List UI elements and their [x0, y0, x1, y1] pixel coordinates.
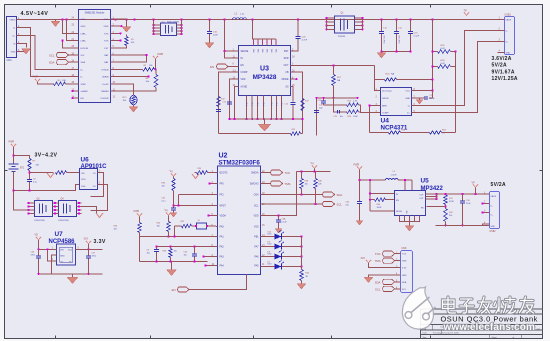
svg-text:NRST: NRST [220, 206, 227, 208]
port TMS top [261, 183, 271, 185]
svg-text:VM: VM [81, 173, 84, 175]
capacitor C11 [227, 101, 232, 103]
svg-text:0.1u: 0.1u [162, 201, 166, 203]
wire network to U4 COMP [359, 105, 381, 113]
svg-text:PG: PG [258, 102, 260, 105]
svg-text:D-: D- [81, 77, 84, 79]
wire comp lower R19 [219, 133, 291, 135]
svg-text:OSA: OSA [254, 194, 259, 197]
svg-text:EVSON: EVSON [81, 48, 89, 50]
svg-text:CO: CO [93, 173, 97, 175]
svg-text:U7: U7 [55, 231, 64, 238]
svg-text:SDR: SDR [284, 58, 289, 60]
wire USB2 D+ stub [483, 212, 490, 214]
power flag PWR near STAT [35, 79, 40, 82]
svg-text:VBUS: VBUS [10, 20, 16, 22]
wire cap ground bus [382, 51, 411, 53]
wire Q4 out [82, 207, 97, 214]
ground U7 [72, 274, 74, 277]
svg-text:10K: 10K [62, 80, 66, 82]
svg-text:22uF: 22uF [213, 35, 219, 37]
svg-text:BT1: BT1 [20, 168, 25, 170]
ground RT1 [129, 107, 138, 113]
wire battery minus bus [14, 185, 80, 191]
wire OUT feedback node [317, 97, 358, 99]
wire parts ground bus [140, 261, 208, 263]
resistor R30 10k [173, 176, 175, 178]
svg-text:PG: PG [247, 102, 249, 105]
wire U6 DO to gate [91, 185, 108, 211]
svg-text:GND: GND [81, 26, 86, 28]
wire CN1 GND [17, 49, 26, 52]
svg-text:U2: U2 [219, 153, 228, 160]
svg-text:PA3: PA3 [220, 256, 225, 259]
resistor R23 1K feedback [370, 132, 389, 134]
wire PA0 row R31 X1 [175, 225, 182, 227]
svg-text:470n: 470n [92, 256, 96, 258]
svg-text:SW: SW [263, 49, 265, 52]
svg-text:3V~4.2V: 3V~4.2V [35, 153, 58, 159]
svg-text:3.3V: 3.3V [402, 268, 407, 270]
resistor R32 10k [168, 215, 170, 221]
power flag PWR battery [11, 144, 16, 147]
svg-text:DO: DO [93, 186, 97, 188]
wire pullup rail [297, 171, 331, 173]
wire PA2 row [157, 246, 218, 248]
capacitor C30 22u [359, 180, 361, 201]
power flag PWR R36 [137, 214, 142, 217]
svg-text:SDA: SDA [49, 61, 55, 65]
svg-text:uSMBC: uSMBC [81, 91, 89, 93]
svg-text:10k: 10k [157, 226, 160, 228]
test point TP1 [464, 13, 469, 16]
svg-text:0.1uF: 0.1uF [414, 36, 420, 38]
svg-text:OTSUB: OTSUB [101, 69, 109, 71]
svg-text:TCK: TCK [375, 252, 381, 256]
wire VDDA stub [209, 215, 218, 217]
wire COMP network [219, 72, 239, 133]
power flag Vcc pullups [312, 166, 317, 169]
svg-text:TMS: TMS [375, 259, 381, 263]
wire U5 IN row [370, 193, 394, 195]
svg-text:SCL: SCL [49, 54, 55, 58]
LED D10 [261, 236, 275, 238]
wire USB2 GND [483, 224, 490, 225]
wire sense to R22 [455, 52, 457, 133]
capacitor C6 10n [156, 247, 158, 250]
wire rail to SMB LMB+ pins [63, 20, 79, 34]
svg-text:10n: 10n [184, 255, 187, 257]
svg-text:22uF 16V: 22uF 16V [384, 35, 386, 44]
ground parts row [171, 262, 173, 270]
svg-text:VDDA: VDDA [220, 215, 227, 218]
resistor R2 10K [54, 82, 66, 86]
resistor R39 0.02 [433, 66, 438, 68]
svg-text:BST: BST [284, 51, 289, 53]
resistor R40 3K [300, 270, 304, 281]
wire SCL row [261, 203, 323, 205]
port TCK top [261, 172, 271, 174]
resistor R4 10k [155, 69, 157, 74]
capacitor C14 22uF [396, 20, 398, 32]
ground C10 [205, 43, 214, 49]
svg-text:0.1uF: 0.1uF [430, 98, 436, 100]
wire U4 GND + C17 [412, 98, 420, 100]
resistor R24 NA [375, 80, 385, 91]
svg-text:PG: PG [277, 102, 279, 105]
svg-text:TMS: TMS [285, 182, 291, 186]
svg-text:STM32F030F6: STM32F030F6 [219, 160, 261, 167]
svg-text:D-: D- [491, 206, 493, 208]
watermark chinese text dian zi fa shao you [443, 297, 534, 313]
svg-text:COMP: COMP [241, 72, 248, 74]
capacitor C13 22uF [381, 20, 383, 32]
svg-text:VBUS: VBUS [491, 196, 497, 198]
wire U7 bottom rail [39, 273, 103, 275]
svg-text:VBUS: VBUS [506, 20, 512, 22]
resistor R12 comp [217, 97, 221, 107]
svg-text:PA5: PA5 [254, 265, 259, 268]
resistor R27 NA [333, 66, 335, 75]
svg-text:MP3422: MP3422 [421, 186, 444, 192]
wire FB divider [291, 72, 303, 133]
svg-text:OUT: OUT [284, 65, 289, 67]
svg-text:DisSP: DisSP [102, 84, 109, 86]
power flag 3V3 out [86, 241, 91, 244]
svg-text:LED: LED [268, 234, 272, 236]
IC U4 NCP4371 [381, 88, 412, 116]
power flag PWR for pullups [153, 56, 158, 59]
svg-text:3V3: 3V3 [361, 257, 366, 260]
wire PA3 stub [204, 256, 218, 258]
svg-text:TCK: TCK [402, 254, 407, 256]
svg-text:EN: EN [241, 65, 245, 67]
svg-text:PWR: PWR [9, 141, 15, 144]
svg-text:FDMC7660: FDMC7660 [59, 220, 70, 222]
svg-text:VCC: VCC [405, 91, 410, 93]
svg-text:SCL: SCL [337, 203, 343, 207]
ground C32 [170, 213, 177, 218]
svg-text:PB1: PB1 [254, 237, 259, 239]
svg-text:SDA: SDA [337, 193, 343, 197]
svg-text:VDD: VDD [254, 216, 259, 218]
wire uSMBCE stub [73, 90, 79, 92]
wire OUT to R24 node [374, 66, 376, 80]
wire CE tie [48, 249, 57, 261]
power flag 3V3 cn8 [366, 260, 371, 263]
svg-text:PG: PG [264, 102, 266, 105]
wire PA4 stub [206, 265, 218, 267]
svg-text:Vout: Vout [68, 249, 73, 252]
svg-text:SW: SW [272, 49, 274, 52]
svg-text:EN: EN [210, 65, 214, 69]
svg-text:U4: U4 [381, 118, 390, 125]
svg-text:SW: SW [276, 49, 278, 52]
svg-text:Discharge: Discharge [382, 90, 393, 93]
svg-text:VSS: VSS [81, 186, 86, 188]
capacitor C19 10p [323, 98, 325, 101]
capacitor C26 on BST [297, 20, 299, 37]
capacitor C35 10n [194, 247, 196, 254]
svg-text:4.5V~14V: 4.5V~14V [21, 11, 49, 17]
svg-text:PA1: PA1 [220, 236, 225, 239]
svg-text:GND: GND [405, 98, 410, 100]
wire U4 VCC [412, 90, 433, 92]
resistor R26 0.02 [433, 51, 438, 53]
svg-text:SMB1351 Module: SMB1351 Module [85, 12, 105, 15]
svg-text:22u: 22u [346, 205, 349, 207]
capacitor C10 22uF [209, 20, 211, 32]
thermistor RT1 10k [130, 95, 137, 105]
svg-text:AGND: AGND [241, 86, 248, 89]
resistor R5 43k below rail ground [126, 35, 128, 37]
op IC U3 MP3428 [239, 46, 291, 96]
capacitor C16 0.1uF [410, 20, 412, 32]
resistor R38 10k [301, 172, 303, 179]
svg-text:GND: GND [104, 26, 109, 28]
svg-text:TCK: TCK [285, 171, 291, 175]
power flag PWR U5 [357, 167, 362, 170]
svg-text:0.1u: 0.1u [33, 182, 37, 184]
svg-text:PA2: PA2 [220, 246, 225, 249]
capacitor C34 470n [38, 249, 40, 255]
power flag U7 in [36, 237, 41, 240]
wire VDD down [230, 79, 239, 119]
wire SYS pins stubs [111, 32, 121, 34]
svg-text:SDA: SDA [81, 61, 86, 64]
capacitor C37 470n [88, 249, 90, 255]
wire OUT to right [291, 65, 375, 67]
svg-text:3V3: 3V3 [84, 238, 89, 241]
resistor R41 473K [444, 195, 448, 205]
svg-text:PWR: PWR [158, 53, 164, 56]
svg-text:LED: LED [268, 264, 272, 266]
svg-text:PA4: PA4 [220, 265, 225, 268]
svg-text:PGDOB: PGDOB [101, 98, 109, 100]
svg-text:LED: LED [268, 254, 272, 256]
svg-text:THERM: THERM [101, 91, 109, 93]
svg-text:SCL: SCL [375, 287, 381, 291]
resistor R44 100R [370, 199, 374, 201]
wire U6 CO to gate [91, 173, 104, 197]
svg-text:1.5uH: 1.5uH [391, 174, 397, 176]
wire GND pin down [52, 255, 57, 274]
wire U4 D+ to USB1 [412, 42, 498, 113]
svg-text:PF1: PF1 [220, 195, 225, 197]
svg-text:9V/1.67A: 9V/1.67A [492, 69, 515, 75]
wire SDA row [261, 194, 323, 196]
port EN U3 [217, 64, 228, 69]
power flag NRST pullup [171, 174, 176, 177]
svg-text:DRIVE: DRIVE [382, 98, 389, 100]
svg-text:10k: 10k [162, 186, 165, 188]
wire mid feedback [401, 132, 430, 134]
wire PA1 row [140, 236, 218, 238]
svg-text:100K: 100K [353, 116, 358, 118]
port SDA [57, 60, 69, 65]
svg-text:51k: 51k [449, 215, 452, 217]
svg-text:U6: U6 [81, 157, 90, 164]
svg-text:22uF: 22uF [466, 203, 471, 205]
svg-text:www.elecfans.com: www.elecfans.com [443, 322, 536, 333]
svg-text:470n: 470n [31, 255, 35, 257]
wire SS cap [291, 87, 294, 102]
svg-text:PA7: PA7 [254, 246, 259, 249]
svg-text:GND: GND [104, 19, 109, 21]
svg-text:D-: D- [506, 31, 509, 33]
wire SMB GND pins right [111, 19, 127, 27]
power flag VP [473, 185, 478, 188]
svg-text:PWR: PWR [134, 210, 140, 213]
svg-text:SW: SW [258, 49, 260, 52]
svg-text:SDA: SDA [375, 280, 381, 284]
svg-text:FB: FB [286, 72, 289, 74]
wire U5 MODE row [370, 210, 394, 212]
svg-text:FST: FST [104, 48, 109, 50]
wire U5 gnd rail [436, 224, 490, 226]
svg-text:10n: 10n [147, 253, 150, 255]
RC network row2 [334, 98, 347, 112]
wire SENSE from rail [225, 20, 239, 52]
svg-text:SDA: SDA [402, 281, 407, 284]
svg-text:GND: GND [11, 52, 16, 54]
svg-text:LMB+: LMB+ [81, 41, 87, 43]
RC network row1 [324, 104, 347, 106]
svg-text:D-: D- [13, 28, 16, 30]
wire U4 BHB [370, 106, 381, 133]
resistor R1 10k [111, 68, 143, 70]
wire CN1 D+ to SMB D+ [17, 36, 79, 70]
svg-text:C4A: C4A [282, 218, 287, 221]
port EN bottom [178, 287, 189, 292]
svg-text:TP: TP [464, 10, 467, 13]
ground U5 [409, 222, 411, 226]
wire GND cn8 [369, 275, 401, 277]
svg-text:SWCHO: SWCHO [250, 184, 259, 186]
LED D8 [261, 256, 275, 258]
svg-text:SS: SS [285, 87, 289, 89]
wire EN stub [73, 97, 79, 99]
wire PF1 to NRST node [179, 194, 218, 196]
wire Q2 right bus [181, 20, 183, 35]
U3 bottom pins PGND [246, 96, 248, 120]
ground CN8 [364, 277, 373, 283]
svg-text:PA0: PA0 [220, 226, 225, 229]
svg-text:SW: SW [407, 210, 409, 213]
svg-text:BHB: BHB [382, 106, 387, 108]
svg-text:BAT: BAT [104, 61, 109, 64]
svg-text:SWDIA: SWDIA [251, 172, 259, 175]
svg-text:VD: VD [35, 234, 39, 237]
wire U3 ground bus [230, 118, 303, 120]
port TCK cn8 [383, 251, 395, 256]
wire VCC drop x432 [432, 20, 434, 91]
wire IN [225, 51, 239, 58]
svg-text:LED: LED [268, 244, 272, 246]
U3 top pins SW [253, 39, 255, 46]
wire PF0 stub [210, 183, 218, 185]
port TMS cn8 [383, 258, 395, 263]
svg-text:PG: PG [271, 102, 273, 105]
wire BAT pins [111, 54, 147, 56]
wire DisSP stub [111, 76, 149, 78]
svg-text:D-: D- [408, 106, 411, 108]
ground C30 [356, 221, 363, 226]
svg-text:SW: SW [267, 49, 269, 52]
svg-text:VP: VP [472, 182, 476, 185]
port SDA right [323, 192, 335, 197]
wire CN1 D- to SMB D- [17, 28, 79, 77]
module U1 SMB1351 [79, 10, 111, 103]
svg-text:PG: PG [252, 102, 254, 105]
svg-text:Sheet: Sheet [492, 336, 498, 339]
wire U4 D- to USB1 [412, 31, 498, 106]
svg-text:43k: 43k [131, 42, 134, 44]
svg-text:NA: NA [337, 79, 341, 82]
ground CN1 [22, 49, 31, 55]
svg-text:GND: GND [491, 226, 496, 228]
svg-text:3.3V: 3.3V [94, 239, 106, 245]
svg-text:NA: NA [391, 73, 395, 76]
svg-text:SYS: SYS [104, 33, 109, 35]
capacitor C8 0.1u [27, 179, 32, 181]
watermark logo droplet [402, 287, 435, 329]
svg-text:MODE: MODE [396, 211, 403, 213]
svg-text:U5: U5 [421, 178, 430, 185]
resistor R7 330 [28, 159, 32, 171]
svg-text:5V/2A: 5V/2A [491, 182, 506, 188]
svg-text:EN: EN [172, 288, 176, 292]
wire U5 OUT rail [437, 193, 490, 195]
wire EVSON from LMB bus [63, 41, 79, 48]
svg-text:10k: 10k [114, 229, 117, 231]
resistor R36 10k [139, 216, 141, 222]
ground output caps [381, 52, 383, 53]
svg-text:PF0: PF0 [220, 184, 225, 186]
power flag Vq R32 [166, 213, 171, 216]
capacitor C4A 0.1uF [278, 216, 280, 220]
svg-text:PA6: PA6 [254, 256, 259, 259]
svg-text:MP3428: MP3428 [253, 74, 277, 81]
svg-text:0.1uF: 0.1uF [282, 222, 288, 224]
title block [421, 308, 543, 310]
svg-text:USB2: USB2 [490, 231, 497, 233]
port SDA cn8 [383, 279, 395, 284]
svg-text:PWR: PWR [354, 164, 360, 167]
svg-text:VDD: VDD [241, 79, 246, 81]
wire MODE stub [291, 78, 297, 80]
wire FB tap [427, 206, 446, 208]
LED D7 [261, 266, 275, 268]
ground R40 [297, 284, 306, 290]
svg-text:3.6V/2A: 3.6V/2A [492, 56, 512, 62]
wire battery minus to Q3 [14, 191, 29, 211]
svg-text:VIN: VIN [60, 250, 64, 252]
resistor R17 FB [301, 99, 305, 111]
resistor R33 10k [169, 249, 173, 258]
svg-text:USBIN: USBIN [102, 77, 109, 79]
svg-text:100R: 100R [377, 207, 382, 209]
port SCL right [323, 201, 335, 206]
wire CN1 ID [17, 44, 27, 48]
svg-text:U3: U3 [260, 66, 269, 73]
svg-text:VDD: VDD [81, 179, 86, 181]
svg-text:4.7uF: 4.7uF [302, 40, 308, 42]
svg-text:IN: IN [241, 58, 244, 60]
svg-text:SCL: SCL [254, 206, 259, 208]
svg-text:AP9101C: AP9101C [81, 164, 108, 170]
connector CN1 [7, 17, 17, 58]
